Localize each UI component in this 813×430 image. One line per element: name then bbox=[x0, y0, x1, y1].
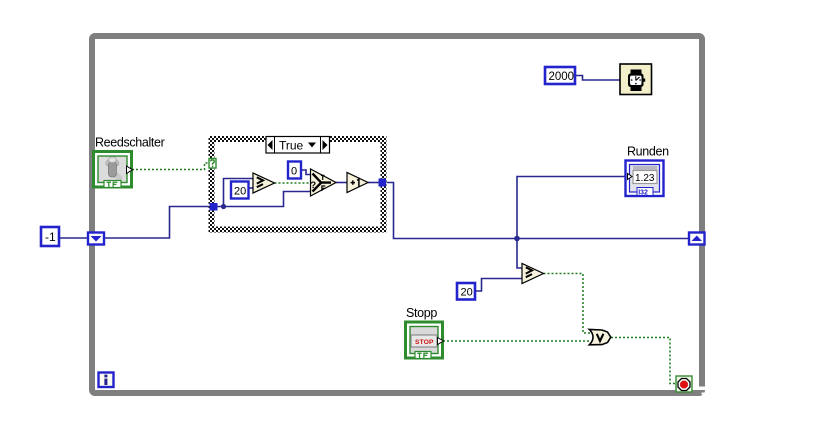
svg-text:Reedschalter: Reedschalter bbox=[95, 136, 165, 150]
svg-text:1.23: 1.23 bbox=[635, 173, 655, 184]
wire: branch up to greater-equal top input bbox=[224, 179, 254, 207]
wire: junction down to comparison top input bbox=[517, 239, 522, 269]
case selector label True bbox=[266, 137, 330, 154]
OR function bbox=[589, 329, 611, 344]
right shift register bbox=[689, 233, 705, 245]
wire: greater-equal output to select (boolean dotted) bbox=[275, 182, 311, 184]
svg-text:-1: -1 bbox=[45, 230, 56, 244]
svg-text:STOP: STOP bbox=[415, 339, 434, 346]
constant -1 bbox=[41, 227, 59, 246]
wire: OR gate output to loop condition terminal (boolean dotted) bbox=[611, 338, 676, 384]
wire: Stopp control to OR gate (boolean dotted) bbox=[443, 340, 590, 342]
wire: constant 0 to select T input bbox=[301, 170, 310, 175]
wire: constant 2000 to wait function bbox=[575, 76, 620, 81]
constant 20 (lower) bbox=[457, 283, 475, 300]
wire: Reedschalter to case selector terminal (boolean dotted) bbox=[132, 163, 209, 170]
wire: comparison output to OR gate (boolean dotted) bbox=[544, 274, 592, 334]
right case tunnel bbox=[379, 179, 387, 187]
svg-text:20: 20 bbox=[234, 186, 246, 198]
greater-or-equal function (inside case) bbox=[253, 173, 275, 193]
junction dot inside case bbox=[221, 204, 226, 209]
wire: case right tunnel down and across to right shift register bbox=[386, 183, 689, 239]
svg-text:True: True bbox=[279, 139, 304, 153]
wire: junction up to Runden indicator bbox=[517, 177, 627, 239]
wire: constant 20 to comparison bottom input bbox=[475, 279, 522, 292]
svg-text:?: ? bbox=[310, 180, 316, 191]
junction dot on main wire bbox=[514, 236, 520, 242]
while loop frame bbox=[92, 36, 708, 395]
case selector terminal ? bbox=[209, 159, 216, 169]
Runden numeric indicator terminal bbox=[626, 161, 664, 197]
constant 20 (inside case) bbox=[231, 182, 249, 199]
Reedschalter boolean control terminal bbox=[94, 152, 133, 188]
case structure border bbox=[209, 136, 387, 233]
wire: constant 20 to greater-equal bottom input bbox=[249, 187, 254, 189]
svg-text:20: 20 bbox=[461, 287, 473, 299]
svg-text:Runden: Runden bbox=[627, 145, 669, 159]
wire: select output to increment bbox=[336, 182, 347, 184]
greater-or-equal comparison (lower) bbox=[522, 264, 544, 284]
loop iteration terminal i bbox=[99, 373, 114, 388]
Stopp boolean control terminal bbox=[406, 322, 444, 359]
wire: -1 constant to left shift register bbox=[59, 237, 88, 239]
svg-text:I32: I32 bbox=[638, 190, 648, 197]
left shift register bbox=[88, 233, 104, 245]
wire: case tunnel to branch and select F input bbox=[217, 192, 310, 207]
svg-text:0: 0 bbox=[291, 166, 297, 178]
select function bbox=[310, 169, 336, 196]
constant 2000 bbox=[545, 67, 575, 84]
wait (ms) function icon bbox=[620, 64, 652, 95]
increment +1 function bbox=[347, 173, 368, 193]
left case tunnel bbox=[210, 203, 218, 211]
wire: left shift register up into case left tunnel bbox=[104, 207, 210, 239]
wire: increment output to case right tunnel bbox=[368, 182, 379, 184]
svg-text:Stopp: Stopp bbox=[406, 306, 437, 320]
loop condition terminal (stop if true) bbox=[676, 376, 692, 392]
constant 0 (inside case) bbox=[288, 162, 301, 179]
svg-text:2000: 2000 bbox=[549, 71, 575, 83]
